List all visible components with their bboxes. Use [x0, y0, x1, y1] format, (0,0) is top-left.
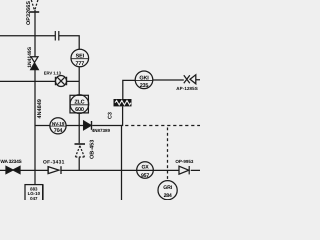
svg-text:704: 704 — [54, 128, 63, 134]
wire dashed horizontal y=125 — [125, 125, 200, 127]
svg-text:ERV 1.13: ERV 1.13 — [44, 71, 62, 76]
svg-text:GRI: GRI — [163, 185, 172, 191]
diode D6 OF-3431 — [48, 166, 61, 174]
svg-text:ZLC: ZLC — [74, 100, 84, 106]
meter U6 GRI 284 — [158, 181, 177, 200]
svg-text:600: 600 — [75, 107, 84, 113]
capacitor C2 — [55, 31, 59, 41]
wire diode to y170 — [78, 158, 80, 171]
wire horizontal mid y=81 — [0, 80, 79, 82]
svg-text:C3: C3 — [108, 112, 114, 119]
diode D7 OP-9953 — [179, 166, 189, 174]
svg-text:NV-19: NV-19 — [52, 121, 65, 127]
wire horizontal top y=35.5 — [0, 36, 79, 50]
diode D2 4N87389 — [84, 121, 92, 130]
diode pair D1 1N4149S — [31, 57, 39, 70]
wire horizontal y=125 — [35, 125, 122, 127]
diode D4 AP-1285 crossed — [184, 75, 196, 84]
svg-text:284: 284 — [164, 193, 172, 199]
wire resistor down to bottom — [122, 106, 123, 200]
svg-text:4N4849: 4N4849 — [37, 99, 43, 118]
lamp L1 ERV 1.13 — [55, 76, 66, 87]
wire horizontal bottom y=170 — [0, 169, 200, 171]
svg-text:OP-9953: OP-9953 — [175, 159, 194, 164]
svg-text:4N87389: 4N87389 — [92, 128, 111, 133]
transducer U2 ZLC 600 — [70, 95, 89, 114]
svg-text:GKI: GKI — [139, 75, 149, 81]
svg-text:957: 957 — [141, 173, 149, 179]
wire dashed vertical x=167.5 — [167, 128, 169, 181]
svg-text:047: 047 — [30, 196, 38, 200]
svg-text:AP-1285S: AP-1285S — [176, 86, 198, 91]
wire node y81 to ZLC — [78, 81, 80, 95]
wire GKI to diode AP — [153, 79, 200, 81]
resistor R1 black box — [114, 99, 132, 106]
meter U5 GX 957 — [137, 162, 154, 179]
svg-text:OP3266S: OP3266S — [26, 1, 32, 25]
svg-text:WA 3234S: WA 3234S — [0, 159, 22, 165]
meter U4 GKI 235 — [135, 71, 153, 89]
svg-text:OF-3431: OF-3431 — [43, 160, 65, 166]
wire right branch corner to GKI — [123, 80, 135, 99]
wire SEI to node y81 — [78, 67, 80, 82]
meter U3 NV-19 704 — [50, 118, 66, 134]
svg-text:SEI: SEI — [76, 54, 85, 60]
svg-text:GX: GX — [141, 164, 149, 170]
svg-text:235: 235 — [140, 83, 149, 89]
svg-text:777: 777 — [76, 61, 85, 67]
svg-text:1N4149S: 1N4149S — [27, 46, 33, 68]
wire vertical left bus x=35 — [34, 10, 36, 185]
svg-text:OB-453: OB-453 — [90, 140, 96, 159]
diode D3 dashed OB-453 — [75, 144, 86, 157]
diode D0 dashed top symbol — [30, 0, 39, 12]
connector J1 883 box — [25, 185, 43, 201]
wire ZLC to node y125 — [78, 113, 80, 143]
meter U1 SEI 777 — [71, 49, 89, 67]
diode pair D5 WA 3234S bowtie — [6, 166, 20, 173]
